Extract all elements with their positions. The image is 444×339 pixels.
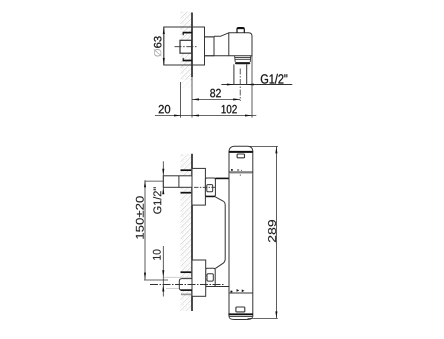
G1/2 arrow up [162, 187, 164, 194]
G1/2 arrow left-pointing [247, 83, 254, 85]
label 10 [153, 250, 161, 260]
bottom window [236, 307, 245, 312]
lower union centerline [150, 284, 224, 286]
housing extension line [251, 56, 253, 118]
bottom joint line [229, 292, 253, 294]
top clip marks [231, 169, 233, 171]
supply anchor line upper [183, 32, 192, 34]
upper connector top edge [215, 177, 228, 179]
upper pipe flange line [178, 176, 180, 188]
arrow down (289) [275, 311, 277, 318]
upper pipe centerline (150 ext) [145, 180, 163, 182]
label 102 [222, 105, 237, 114]
column top band [229, 151, 253, 153]
lower anchor line top [181, 271, 192, 273]
body (escutcheon, top view) [164, 27, 205, 65]
wall hatch (front view) [181, 154, 193, 311]
dim 289 line [275, 146, 277, 318]
top window [237, 154, 244, 158]
upper anchor line bottom [181, 192, 192, 194]
mounting bar with curves [215, 197, 225, 269]
column bottom band [228, 313, 253, 315]
valve stem square [180, 40, 192, 53]
lower union cover [192, 260, 206, 296]
upper union cover [192, 168, 205, 205]
upper eccentric bolt [207, 185, 213, 192]
dim 150 line [144, 180, 146, 279]
wall face line (top view) [191, 13, 193, 78]
lower eccentric bolt [207, 274, 213, 281]
G1/2 arrow down [162, 169, 164, 176]
ext line 289 bottom [248, 317, 278, 319]
dim line 20 and 102 [155, 115, 256, 117]
label G1/2 (top view) [261, 74, 288, 84]
ext line 150 bottom [144, 279, 168, 281]
dim line diameter 63 [163, 27, 165, 65]
wall face line (front view) [191, 154, 193, 311]
ext line 289 top [249, 145, 278, 147]
column bottom cap [229, 316, 253, 319]
outlet pipe [234, 64, 247, 84]
lower anchor line bottom [181, 293, 191, 295]
column body [229, 146, 253, 316]
lower connector bottom edge [206, 286, 229, 288]
label 82 [210, 89, 221, 98]
stem centerline [175, 46, 198, 48]
wall hatch (top view) [181, 12, 193, 81]
G1/2 dim line (front view) [162, 161, 164, 192]
bottom joint marks [237, 289, 239, 291]
arrow up (150) [144, 180, 146, 187]
arrow down (10) [162, 270, 164, 277]
arrow down (150) [144, 273, 146, 280]
knob on housing [237, 28, 244, 33]
arrow right-pointing (20) [174, 114, 181, 116]
label 150 pm 20 [136, 196, 144, 239]
arrow up (63) [163, 27, 165, 34]
cartridge housing [229, 33, 252, 56]
arrow right (102) [245, 114, 252, 116]
G1/2 leader line (top view) [221, 84, 292, 86]
wall back extension line [179, 82, 181, 118]
arrow right (82) [233, 98, 240, 100]
lower eccentric [206, 268, 216, 286]
G1/2 arrow right-pointing [227, 83, 234, 85]
supply anchor line lower [183, 60, 192, 62]
label diameter 63 [154, 49, 162, 57]
neck piece 1 [205, 37, 215, 56]
top joint line 2 [229, 173, 253, 175]
label 20 [159, 105, 171, 114]
arrow left-pointing (102) [192, 114, 199, 116]
neck piece 2 [214, 33, 229, 56]
pipe centerline [239, 69, 241, 102]
dim line 82 [192, 98, 240, 100]
flange ring 2 [235, 58, 251, 60]
upper anchor line top [181, 169, 192, 171]
upper union centerline [194, 186, 215, 188]
arrow left (82) [192, 98, 199, 100]
arrow up (289) [275, 146, 277, 153]
arrow down (63) [163, 58, 165, 65]
lower pipe fitting [179, 279, 192, 291]
upper supply pipe [163, 176, 192, 188]
lower union gray pipe bottom [166, 288, 206, 290]
label G1/2 (front view) [153, 187, 161, 214]
top joint line [229, 171, 253, 173]
wall face extension line [191, 77, 193, 118]
label 289 [268, 220, 276, 242]
flange ring 1 [235, 56, 251, 62]
dim 10 line [162, 246, 164, 297]
flange dark band [235, 62, 250, 64]
joint dot [240, 175, 241, 176]
upper eccentric [205, 178, 215, 197]
arrow up (10) [162, 285, 164, 292]
lower union gray pipe top [163, 276, 207, 278]
